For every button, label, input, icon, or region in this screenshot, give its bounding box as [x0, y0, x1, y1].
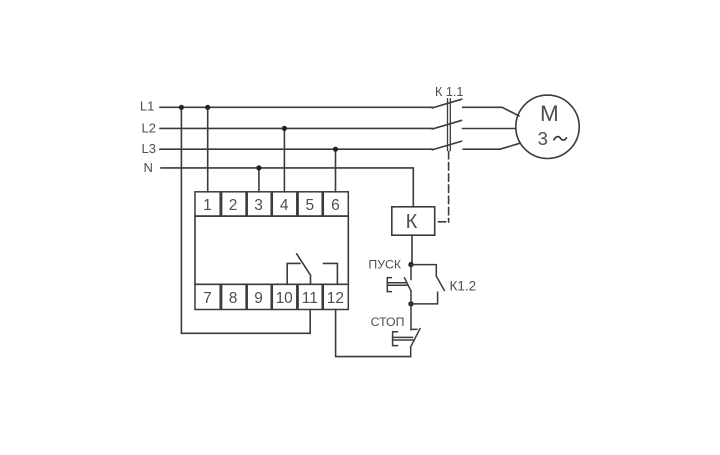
motor M1 circle [516, 95, 579, 158]
svg-text:4: 4 [280, 197, 289, 214]
junction L2 to terminal 4 [282, 126, 287, 131]
wire drop to terminal 4 [283, 128, 285, 191]
svg-text:3: 3 [254, 197, 263, 214]
lower stub [411, 292, 438, 304]
pole 1 blade [432, 99, 461, 108]
svg-text:СТОП: СТОП [371, 315, 405, 329]
junction N to terminal 3 [256, 165, 261, 170]
actuator rod [393, 336, 413, 338]
wire N horizontal [161, 168, 413, 207]
actuator rod [387, 282, 406, 284]
coil K box [392, 207, 435, 235]
svg-text:8: 8 [229, 290, 238, 307]
svg-text:К 1.1: К 1.1 [435, 85, 463, 99]
contactor K1.1 [432, 99, 519, 222]
svg-text:6: 6 [331, 197, 340, 214]
upper stub [410, 304, 412, 330]
upper stub [411, 265, 436, 277]
relay internal SPDT contact [287, 254, 337, 284]
wire drop to terminal 1 [207, 107, 209, 192]
pole 1 wire to motor [463, 107, 519, 116]
actuator bracket [387, 278, 391, 292]
blade [405, 278, 412, 291]
pole 2 wire to motor [463, 128, 516, 130]
contact blade terminal 11 [297, 254, 311, 284]
wire L3 horizontal [160, 148, 432, 150]
relay terminal strip bottom cells 7-12 [195, 284, 348, 309]
relay body U1 [195, 216, 348, 284]
svg-text:M: M [540, 101, 559, 126]
svg-text:10: 10 [276, 290, 294, 307]
svg-text:L3: L3 [142, 141, 156, 156]
wire left drop L1 to bottom [181, 107, 310, 333]
svg-text:К: К [406, 211, 418, 233]
seat tick [411, 328, 417, 330]
svg-text:2: 2 [229, 197, 238, 214]
junction node stop branch [408, 301, 413, 306]
blade [437, 277, 444, 290]
junction L3 to terminal 6 [333, 147, 338, 152]
svg-text:N: N [144, 160, 153, 175]
wire L1 horizontal [160, 106, 432, 108]
svg-text:11: 11 [302, 290, 318, 307]
svg-text:12: 12 [327, 290, 344, 307]
stop button STOP (NC) [393, 304, 420, 357]
svg-text:ПУСК: ПУСК [368, 257, 402, 271]
contact stub terminal 12 [324, 263, 338, 284]
contact stub terminal 10 [287, 263, 300, 284]
lower wire [410, 347, 412, 356]
svg-text:1: 1 [203, 197, 212, 214]
pole 3 blade [432, 141, 461, 150]
mechanical link dashed line [448, 152, 450, 223]
start button PUSK (NO) [387, 265, 411, 304]
blade [411, 329, 421, 348]
junction node start branch [408, 262, 413, 267]
svg-text:9: 9 [254, 290, 263, 307]
junction L1 left branch [179, 105, 184, 110]
auxiliary contact K1.2 [411, 265, 444, 304]
svg-text:L1: L1 [140, 98, 154, 113]
svg-text:3: 3 [538, 128, 548, 149]
wire L2 horizontal [160, 127, 432, 129]
wire K coil to node A [411, 235, 413, 264]
relay terminal strip top cells 1-6 [195, 192, 348, 216]
svg-text:L2: L2 [142, 120, 156, 135]
linkage bar double line [447, 99, 449, 151]
pole 3 wire to motor [463, 143, 519, 149]
svg-text:К1.2: К1.2 [450, 279, 477, 294]
pole 2 blade [432, 120, 461, 129]
lower stub [410, 291, 412, 304]
actuator bracket [393, 332, 398, 346]
svg-text:5: 5 [305, 197, 314, 214]
wire drop to terminal 6 [335, 149, 337, 192]
wire terminal 12 to stop button [336, 310, 411, 357]
svg-text:7: 7 [203, 290, 212, 307]
junction L1 to terminal 1 [205, 105, 210, 110]
wire drop to terminal 3 [258, 168, 260, 192]
upper stub [410, 265, 412, 280]
